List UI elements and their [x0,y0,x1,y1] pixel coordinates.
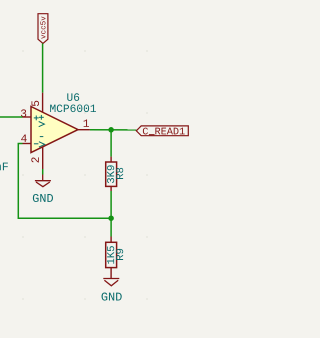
pin 1 stub (output) [78,129,90,131]
pin 4 stub (- input) [23,143,32,145]
wire pin 4 feedback loop [18,144,111,219]
ground symbol GND (bottom) [103,279,119,286]
pin number 2 [31,157,38,162]
resistor R9 [106,237,117,279]
capacitor value nF (clipped at edge) [0,163,8,171]
pin 5 stub (V+) [42,93,44,113]
reference R8 [116,168,123,179]
pin 3 stub (+ input) [23,116,32,118]
wire vcc5v to U6 pin 5 [42,44,44,93]
power label vcc5v [38,14,48,44]
pin number 1 [84,120,89,127]
reference U6 [67,93,79,101]
value MCP6001 [50,105,96,113]
global label C_READ1 [136,126,188,136]
pin number 5 [32,101,39,106]
ground net name GND (left) [33,194,53,202]
pin name V+ [39,115,45,127]
pin 2 stub (V-) [42,147,44,169]
value 3K9 [107,165,114,183]
wire junction down to R9 [110,218,112,236]
wire pin 2 to GND [42,169,44,175]
ground net name GND (bottom) [102,293,122,301]
wire junction down to R8 [110,130,112,157]
ground symbol GND (left) [35,175,51,187]
op-amp U6 body [31,107,78,153]
pin number 4 [21,135,27,142]
pin name + [34,116,39,121]
wire R8 to junction [110,191,112,218]
pin number 3 [21,109,26,117]
resistor R8 [106,157,117,191]
reference R9 [116,249,123,260]
pin name - [34,143,39,145]
value 1K5 [107,246,114,264]
junction (feedback node) [108,215,114,221]
wire pin 1 to net label [90,129,136,131]
junction (output node) [108,127,114,133]
pin name V- [39,137,45,148]
wire to pin 3 (from left, off-canvas) [0,116,23,118]
